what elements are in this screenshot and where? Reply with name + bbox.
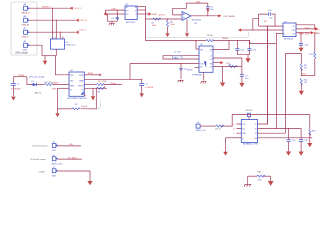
svg-text:ATSAML10_PN: ATSAML10_PN [243, 143, 258, 146]
wire VBUS feed to charger [55, 56, 69, 75]
ground AGND2 hatch [178, 80, 184, 82]
net flag VREF [311, 31, 320, 35]
svg-text:QWIIC_SCL: QWIIC_SCL [51, 163, 63, 165]
wire opamp plus input row [146, 18, 183, 19]
svg-text:10k_R: 10k_R [81, 106, 88, 108]
resistor R11 [300, 53, 308, 75]
ground GND12 [299, 48, 304, 52]
ferrite FB1 on SWD line [245, 110, 253, 120]
ground AGND3 hatch [201, 82, 207, 84]
wire J5 LED [57, 144, 81, 146]
resistor R10 [310, 52, 316, 76]
wire analog gnd loop [108, 14, 118, 23]
svg-text:SWD_CLK: SWD_CLK [196, 130, 207, 132]
svg-text:(750k): (750k) [110, 83, 116, 85]
svg-text:I2C_AUX: I2C_AUX [68, 156, 77, 159]
svg-text:VREF_BUF: VREF_BUF [298, 34, 310, 36]
svg-text:L2: L2 [210, 56, 212, 58]
connector box J1 USB charger outline [11, 2, 37, 55]
net flag REF in [238, 28, 241, 31]
wire vertical VBUS to ESD pin1 [52, 8, 53, 39]
wire U8 pin4 row [258, 137, 313, 139]
ground GND9 [220, 83, 225, 87]
wire RC filter row [248, 176, 271, 184]
svg-text:X1: X1 [255, 129, 257, 131]
pin VBUS of J1 [22, 3, 31, 15]
capacitor C9 output [240, 67, 249, 83]
wire U8 left pin stubs [237, 124, 242, 133]
ground GND10 [239, 83, 244, 87]
wire stub ESD pin4 [62, 37, 64, 40]
wire U8 V- to ground [223, 124, 241, 156]
ground GND11 [245, 58, 250, 63]
voltage reference U3 [125, 4, 137, 24]
wire U6 minus feedback loop [173, 3, 187, 15]
net flag PG [213, 61, 230, 65]
wire J8 row [200, 115, 310, 127]
svg-text:(0.6V): (0.6V) [159, 14, 165, 16]
svg-text:TPS62840: TPS62840 [192, 74, 203, 76]
frame corner [91, 101, 101, 110]
wire U4 VBAT right long to regulator [84, 64, 141, 80]
svg-text:c: c [234, 133, 235, 135]
pin D- of J1 [22, 15, 30, 27]
wire VUSB down to diode [27, 77, 33, 85]
wire U7 V- stub [276, 33, 283, 34]
op-amp U6 triangle [182, 12, 202, 25]
capacitor C7 battery [139, 79, 154, 94]
wire U7 NC row VREF [296, 32, 311, 35]
capacitor C10 rail [235, 41, 249, 55]
wire vertical USB_P to ESD pin3 [60, 32, 61, 39]
wire VDD row [105, 9, 125, 14]
wire U3 ref output row [137, 13, 148, 15]
wire VREG rail [146, 40, 276, 44]
inductor L1 loop [163, 51, 199, 59]
wire U4 pin VSS left [52, 88, 69, 90]
svg-text:VDD: VDD [112, 9, 117, 11]
wire gnd bus under ESD [42, 55, 56, 57]
charger section title [29, 75, 45, 78]
wire vreg feed vertical [145, 7, 146, 41]
ground GND17 [268, 181, 274, 186]
wire feedback top with resistor R7 [186, 2, 208, 4]
svg-text:GND: GND [52, 88, 57, 90]
svg-text:+: + [284, 30, 285, 32]
wire U6 output row [191, 15, 218, 16]
capacitor C11 rail [247, 41, 257, 52]
wire diode to R1 [37, 82, 59, 84]
wire U7 out row VCC [296, 27, 315, 29]
wire stub near U7 plus input [253, 19, 259, 30]
wire U7 plus input [241, 29, 283, 31]
ground GND7 [165, 33, 169, 37]
svg-text:V+: V+ [255, 124, 257, 126]
capacitor C12 feedback series [268, 10, 274, 20]
wire USB_M row [29, 19, 75, 21]
svg-text:101 R: 101 R [215, 129, 221, 131]
resistor R4 750k inline [97, 83, 122, 86]
wire long net V1 [267, 26, 269, 124]
wire R1 to U4 [53, 84, 69, 86]
net flag VDD in [104, 12, 107, 15]
ground GND3 [55, 113, 59, 117]
svg-text:1M: 1M [304, 68, 307, 70]
capacitor C5 feedback [206, 3, 214, 16]
ESD protection U2 [51, 37, 77, 49]
svg-text:VCC: VCC [305, 27, 310, 29]
connector J6 serial [30, 155, 63, 166]
svg-text:VBUS_P: VBUS_P [42, 6, 51, 8]
svg-text:LED: LED [69, 144, 74, 146]
buck regulator U5 [192, 44, 213, 76]
ground AGND1 hatch [109, 23, 115, 25]
wire PROG gnd stub [92, 88, 94, 96]
wire VUSB node [13, 75, 27, 77]
net flag VCC [315, 27, 320, 31]
svg-text:I2C/serial sensor: I2C/serial sensor [30, 158, 46, 161]
svg-text:X2: X2 [255, 133, 257, 135]
svg-text:OUT_AVDD: OUT_AVDD [223, 15, 235, 18]
svg-text:USB_M: USB_M [79, 20, 87, 22]
wire battery minus rail [57, 88, 59, 113]
resistor R15 inline [257, 171, 265, 181]
svg-text:MCP73831T-2ACI/OT: MCP73831T-2ACI/OT [67, 97, 88, 100]
resistor R9 inline FB [229, 64, 238, 67]
svg-text:USB charger: USB charger [15, 52, 28, 55]
ground GND14 [307, 143, 312, 147]
svg-text:BAT 54: BAT 54 [35, 92, 43, 95]
resistor R13 inline [215, 125, 224, 131]
svg-text:4.7uF/16: 4.7uF/16 [145, 87, 154, 89]
svg-text:VBUS_P: VBUS_P [73, 8, 82, 10]
wire sense branch top [285, 53, 301, 133]
resistor R1 inline [45, 83, 53, 85]
svg-text:to BAT: to BAT [39, 171, 46, 174]
svg-text:100k: 100k [152, 25, 156, 27]
capacitor C4 [111, 10, 119, 21]
svg-text:MCP6001: MCP6001 [192, 20, 202, 22]
wire J7 to ground [57, 171, 90, 181]
svg-text:U8 TBD: U8 TBD [245, 110, 253, 112]
wire divider tap [301, 74, 315, 76]
svg-text:1 2 3: 1 2 3 [52, 37, 56, 39]
svg-text:SW: SW [209, 49, 212, 51]
wire FB gnd branch [222, 67, 224, 83]
svg-text:L1 1uH: L1 1uH [174, 51, 181, 53]
ground GND2 [11, 97, 15, 101]
capacitor C14 [287, 129, 297, 152]
capacitor C15 [299, 140, 309, 152]
net flag OUT [218, 14, 235, 18]
connector J5 LED [32, 142, 57, 153]
resistor R6 to gnd [166, 19, 175, 33]
wire U7 V+ row [296, 25, 315, 29]
resistor R3 inline battery loop [72, 104, 88, 110]
wire VBUS row [29, 6, 70, 8]
ground GND6 [87, 181, 92, 185]
wire J6 serial [57, 156, 81, 159]
resistor R12 [300, 79, 308, 91]
wire U8 pin1 to V1 [258, 26, 268, 124]
ground GND13 [299, 91, 304, 96]
wire U8 pin2 row with caps [258, 128, 302, 140]
svg-text:TBD: TBD [257, 171, 262, 173]
svg-text:VREG: VREG [222, 38, 228, 40]
capacitor C8 [179, 64, 187, 80]
svg-text:LED: LED [52, 150, 56, 152]
wire U5 L2 to output cap [213, 58, 242, 66]
svg-text:4.7uF/16V: 4.7uF/16V [11, 89, 21, 91]
capacitor C2 [11, 77, 21, 97]
wire U4 STAT pin right [84, 72, 101, 76]
charger U4 [67, 70, 88, 100]
svg-text:MCP1501: MCP1501 [126, 22, 136, 24]
svg-text:USB_M: USB_M [22, 25, 29, 27]
svg-text:V+: V+ [293, 26, 295, 28]
ground GND1 [43, 56, 47, 65]
wire U5 gnd pin [203, 72, 205, 80]
ground GND5 [140, 93, 144, 97]
svg-text:MODE: MODE [187, 70, 193, 72]
resistor R8 inline rail [206, 35, 228, 42]
svg-text:LiPo batt charger: LiPo batt charger [29, 75, 45, 78]
wire U5 EN stub [187, 67, 199, 71]
svg-text:REF: REF [153, 14, 158, 16]
svg-text:TS_CTRL: TS_CTRL [98, 81, 108, 83]
wire U7 feedback ring [259, 14, 276, 27]
svg-text:VBUS_P: VBUS_P [22, 13, 31, 15]
ground GND15 [286, 152, 291, 156]
wire U5 FB row [213, 66, 242, 67]
op-amp U7 [283, 21, 296, 40]
ground AGND4 hatch [244, 184, 251, 186]
wire U3 out stubs [137, 7, 145, 10]
svg-text:to LED terminals: to LED terminals [32, 145, 47, 148]
svg-text:B2: B2 [84, 95, 86, 97]
wire U6 V- to ground [186, 19, 188, 33]
wire pulldown branch [309, 115, 311, 130]
svg-text:USB_P: USB_P [79, 29, 87, 31]
pin D+ of J1 [22, 27, 30, 39]
wire VBAT into U5 VOS [130, 63, 199, 64]
wire U5 SW to rail riser [213, 41, 229, 50]
wire battery loop bottom [58, 88, 97, 109]
svg-text:R8 0R: R8 0R [207, 35, 213, 37]
net flag USB_P [75, 29, 87, 33]
wire J1 GND down to gnd net [29, 45, 42, 56]
wire USB_P row [29, 31, 75, 33]
svg-text:b: b [234, 129, 235, 131]
svg-text:VUSB: VUSB [18, 75, 24, 77]
ground GND8 [185, 33, 189, 37]
pin GND of J1 [23, 40, 30, 52]
net flag USB_M [75, 19, 87, 23]
ground GND4 [91, 96, 95, 100]
wire vertical USB_M to ESD pin2 [56, 20, 57, 39]
diode D1 [32, 81, 42, 95]
net flag REF [148, 12, 165, 16]
svg-text:GND: GND [242, 133, 247, 135]
svg-text:1M: 1M [304, 82, 307, 84]
wire ESD gnd pin stub [55, 49, 57, 56]
resistor R5 inline [152, 18, 162, 27]
connector J7 battery [39, 167, 58, 178]
svg-text:USB_P: USB_P [22, 37, 29, 39]
wire U4 TS row with label [84, 81, 107, 85]
svg-text:USBLC6-2: USBLC6-2 [66, 44, 77, 46]
resistor R14 [309, 129, 317, 143]
svg-text:STAT: STAT [88, 72, 94, 75]
wire U8 pin3 to sense [258, 132, 286, 134]
section frame reference block [145, 6, 248, 37]
svg-text:MCP6001: MCP6001 [284, 38, 294, 40]
capacitor C13 [299, 33, 309, 48]
svg-text:VBUS: VBUS [53, 82, 59, 84]
wire divider feed vertical [314, 32, 315, 52]
ground GND16 [299, 152, 304, 156]
net flag VBUS [69, 7, 82, 11]
wire long net V2 [276, 34, 278, 129]
wire caps gnd stub [247, 55, 249, 59]
connector J8 SWD [196, 122, 207, 132]
svg-text:TBD: TBD [174, 57, 179, 59]
wire U7 minus input [259, 21, 283, 27]
resistor R2 PROG inline [97, 86, 107, 93]
svg-text:GND: GND [23, 50, 28, 52]
MCU U8 [241, 120, 258, 146]
wire rail branch to U5 VIN [195, 40, 199, 49]
svg-text:PROG: PROG [78, 85, 84, 87]
wire U4 PROG pin right [84, 88, 107, 89]
svg-text:L1: L1 [210, 59, 212, 61]
